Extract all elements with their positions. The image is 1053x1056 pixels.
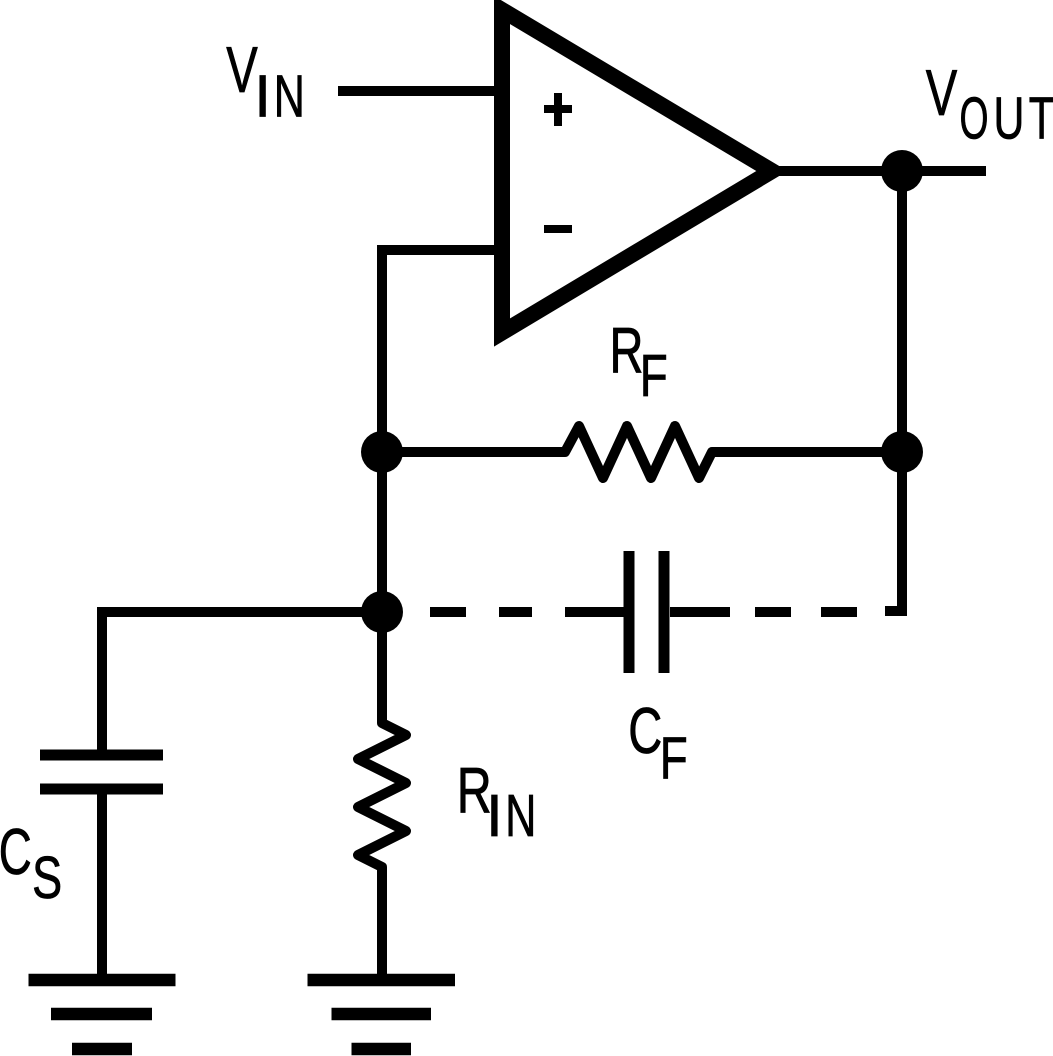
capacitor C_F (dashed feedback) <box>430 452 902 673</box>
wire output down to feedback node <box>897 171 907 452</box>
label C_F <box>628 694 687 791</box>
wire inverting node down to summing node <box>377 452 387 612</box>
wire summing node to R_IN <box>377 612 387 723</box>
svg-text:T: T <box>1029 85 1053 152</box>
capacitor C_S <box>40 755 163 789</box>
svg-text:V: V <box>926 56 958 129</box>
ground GND2 <box>308 980 456 1049</box>
label V_OUT <box>926 56 1053 151</box>
node summing junction <box>361 591 403 633</box>
svg-text:I: I <box>486 782 503 849</box>
node output junction <box>881 150 923 192</box>
svg-text:C: C <box>0 815 32 888</box>
node inverting input junction <box>361 431 403 473</box>
op-amp U1 <box>502 10 772 333</box>
ground GND1 <box>29 980 176 1049</box>
label R_F <box>610 313 668 409</box>
resistor R_IN <box>358 708 406 882</box>
svg-text:F: F <box>640 342 668 409</box>
wire C_S to ground <box>97 789 107 980</box>
svg-text:I: I <box>254 63 271 130</box>
svg-text:N: N <box>274 63 305 130</box>
svg-text:O: O <box>960 85 989 152</box>
svg-text:C: C <box>628 694 662 767</box>
label V_IN <box>226 33 305 130</box>
svg-text:R: R <box>610 313 644 386</box>
wire R_IN to ground <box>377 867 387 980</box>
wire summing node to C_S <box>102 612 382 756</box>
wire inverting node to R_F <box>382 447 565 457</box>
wire inverting input <box>382 250 502 452</box>
wire op-amp output <box>770 166 986 176</box>
wire V_IN to non-inverting input <box>338 86 502 96</box>
svg-text:N: N <box>505 782 536 849</box>
resistor R_F <box>550 426 727 478</box>
label C_S <box>0 815 62 911</box>
svg-text:S: S <box>32 844 62 911</box>
svg-text:F: F <box>660 725 688 792</box>
label R_IN <box>457 753 537 849</box>
node feedback right junction <box>881 431 923 473</box>
wire R_F to feedback node <box>712 447 902 457</box>
svg-text:U: U <box>994 85 1025 152</box>
